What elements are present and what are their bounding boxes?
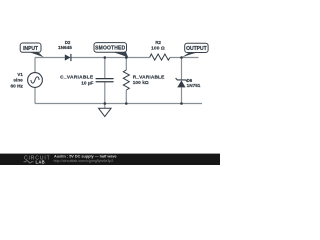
svg-text:D6: D6 bbox=[187, 78, 193, 83]
svg-text:R2: R2 bbox=[155, 40, 161, 45]
svg-text:1N751: 1N751 bbox=[187, 83, 201, 88]
svg-text:V1: V1 bbox=[17, 72, 23, 77]
junction node at SMOOTHED / capacitor bbox=[104, 56, 107, 59]
node flag SMOOTHED bbox=[94, 43, 128, 58]
wire: R_VARIABLE branch top lead bbox=[125, 58, 127, 71]
svg-text:60 Hz: 60 Hz bbox=[11, 84, 24, 89]
wire: V1 bottom to bottom-left corner bbox=[34, 87, 36, 103]
wire: capacitor branch bottom bbox=[104, 82, 106, 104]
wire: top rail left segment (input corner to D2 anode) bbox=[35, 57, 65, 59]
diode D2 bbox=[65, 54, 71, 60]
svg-text:INPUT: INPUT bbox=[23, 46, 38, 52]
svg-text:http://circuitlab.com/c/jpwg5y: http://circuitlab.com/c/jpwg5yiv6e3p2 bbox=[54, 159, 114, 163]
junction node zener bottom bbox=[180, 102, 183, 105]
wire: R_VARIABLE branch bottom lead bbox=[125, 90, 127, 104]
resistor R2 bbox=[150, 54, 170, 60]
svg-text:sine: sine bbox=[13, 78, 23, 83]
junction node R_VARIABLE top bbox=[125, 56, 128, 59]
resistor R_VARIABLE bbox=[123, 70, 129, 90]
svg-text:10 µF: 10 µF bbox=[81, 80, 93, 85]
wire: zener branch bottom lead bbox=[181, 88, 183, 104]
node flag OUTPUT bbox=[181, 43, 208, 57]
wire: bottom rail bbox=[35, 103, 202, 105]
footer bar bbox=[0, 154, 220, 165]
svg-text:OUTPUT: OUTPUT bbox=[186, 46, 207, 52]
footer logo sine mark bbox=[24, 161, 34, 163]
ground bbox=[104, 104, 106, 109]
svg-text:SMOOTHED: SMOOTHED bbox=[95, 46, 125, 52]
junction node R_VARIABLE bottom bbox=[125, 102, 128, 105]
wire: zener branch top lead bbox=[181, 58, 183, 80]
wire: left branch vertical (input corner down to V1 top) bbox=[34, 58, 36, 73]
node flag INPUT bbox=[20, 43, 44, 57]
svg-text:100 Ω: 100 Ω bbox=[151, 45, 165, 51]
svg-text:1N645: 1N645 bbox=[58, 45, 72, 50]
zener diode D6 bbox=[176, 78, 188, 81]
wire: capacitor branch top bbox=[104, 58, 106, 79]
wire: top rail D2 cathode to R2 left bbox=[72, 57, 150, 59]
wire: top rail R2 right to right end bbox=[170, 57, 199, 59]
capacitor C_VARIABLE bbox=[96, 78, 114, 80]
voltage source V1 bbox=[28, 73, 43, 88]
junction node capacitor bottom / ground bbox=[104, 102, 107, 105]
svg-text:LAB: LAB bbox=[36, 160, 46, 165]
junction node OUTPUT / zener top bbox=[180, 56, 183, 59]
svg-text:100 kΩ: 100 kΩ bbox=[133, 80, 149, 85]
